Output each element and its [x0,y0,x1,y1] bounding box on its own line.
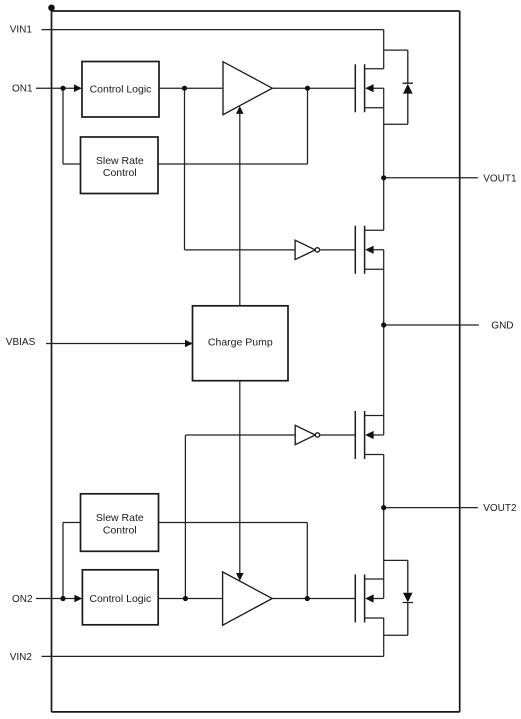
svg-text:Control Logic: Control Logic [90,83,152,95]
svg-text:VOUT2: VOUT2 [483,503,517,514]
svg-text:ON2: ON2 [12,594,33,605]
svg-text:GND: GND [491,320,513,331]
svg-text:Slew Rate: Slew Rate [96,512,144,524]
svg-text:VIN2: VIN2 [10,652,33,663]
svg-text:VOUT1: VOUT1 [483,173,517,184]
svg-text:VBIAS: VBIAS [6,337,36,348]
svg-text:VIN1: VIN1 [10,24,33,35]
svg-text:Slew Rate: Slew Rate [96,155,144,167]
svg-text:Charge Pump: Charge Pump [208,337,273,349]
svg-text:Control: Control [103,167,137,179]
svg-text:Control Logic: Control Logic [89,593,151,605]
svg-text:ON1: ON1 [12,83,33,94]
svg-text:Control: Control [103,524,137,536]
